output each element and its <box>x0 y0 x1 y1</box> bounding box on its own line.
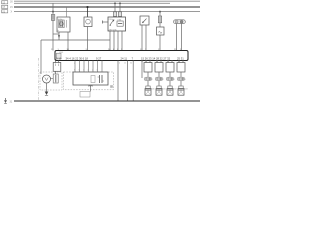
svg-text:1: 1 <box>83 70 84 72</box>
svg-text:2: 2 <box>172 61 173 63</box>
svg-text:4: 4 <box>185 79 186 81</box>
svg-text:12 10: 12 10 <box>55 56 62 60</box>
svg-text:30: 30 <box>145 61 147 63</box>
svg-text:31: 31 <box>141 61 143 63</box>
svg-text:N32: N32 <box>174 89 177 91</box>
svg-text:12: 12 <box>124 63 126 65</box>
svg-text:1: 1 <box>152 79 153 81</box>
svg-text:3: 3 <box>161 61 162 63</box>
svg-text:28: 28 <box>167 61 169 63</box>
svg-text:9 27: 9 27 <box>96 56 102 60</box>
svg-text:N31: N31 <box>163 89 166 91</box>
svg-text:2: 2 <box>163 79 164 81</box>
svg-text:4: 4 <box>150 61 151 63</box>
svg-text:29: 29 <box>156 61 158 63</box>
svg-text:4: 4 <box>119 63 120 65</box>
svg-text:2 30: 2 30 <box>109 19 113 21</box>
svg-text:24 11: 24 11 <box>121 56 128 60</box>
svg-text:30: 30 <box>130 63 132 65</box>
svg-text:5: 5 <box>79 70 80 72</box>
svg-text:25 31: 25 31 <box>177 56 184 60</box>
svg-text:3: 3 <box>97 70 98 72</box>
svg-text:34 4 16 22 30 6 18: 34 4 16 22 30 6 18 <box>66 56 89 60</box>
svg-text:4: 4 <box>92 70 93 72</box>
svg-text:b: b <box>58 30 59 32</box>
svg-text:3: 3 <box>174 79 175 81</box>
svg-text:9 86: 9 86 <box>118 20 122 22</box>
svg-text:15 26 23 14 28 22 27 32: 15 26 23 14 28 22 27 32 <box>141 56 171 60</box>
svg-text:2: 2 <box>88 70 89 72</box>
svg-text:1: 1 <box>183 61 184 63</box>
svg-text:N33: N33 <box>185 89 188 91</box>
svg-text:6: 6 <box>74 70 75 72</box>
svg-text:N30: N30 <box>152 89 155 91</box>
svg-text:26: 26 <box>178 61 180 63</box>
